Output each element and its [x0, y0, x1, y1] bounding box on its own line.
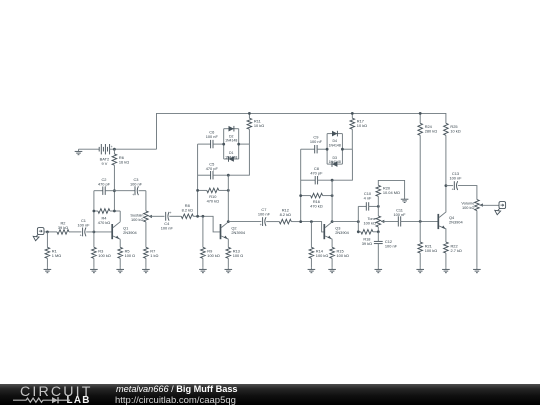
svg-text:9 V: 9 V	[101, 161, 107, 166]
svg-text:10.04 MΩ: 10.04 MΩ	[383, 190, 400, 195]
svg-text:8.2 kΩ: 8.2 kΩ	[182, 207, 193, 212]
svg-text:D1: D1	[229, 151, 234, 155]
svg-text:100 Ω: 100 Ω	[233, 253, 244, 258]
svg-text:2N3904: 2N3904	[449, 220, 463, 225]
svg-text:100 nF: 100 nF	[393, 212, 406, 217]
svg-text:100 nF: 100 nF	[385, 244, 398, 249]
svg-text:100 nF: 100 nF	[206, 134, 219, 139]
svg-text:1 MΩ: 1 MΩ	[52, 253, 61, 258]
svg-text:+: +	[132, 193, 134, 197]
svg-text:D4: D4	[332, 139, 337, 143]
svg-text:10 kΩ: 10 kΩ	[450, 129, 460, 134]
svg-text:39 kΩ: 39 kΩ	[362, 241, 372, 246]
svg-text:10 kΩ: 10 kΩ	[357, 123, 367, 128]
svg-text:8.2 kΩ: 8.2 kΩ	[280, 212, 291, 217]
svg-text:100 nF: 100 nF	[310, 139, 323, 144]
svg-text:100 kΩ: 100 kΩ	[462, 205, 475, 210]
svg-text:100 nF: 100 nF	[77, 222, 90, 227]
svg-text:100 kΩ: 100 kΩ	[131, 217, 144, 222]
svg-text:470 kΩ: 470 kΩ	[310, 203, 323, 208]
svg-text:10 kΩ: 10 kΩ	[254, 123, 264, 128]
svg-text:100 nF: 100 nF	[258, 211, 271, 216]
svg-text:2N3904: 2N3904	[335, 230, 349, 235]
svg-text:39 kΩ: 39 kΩ	[58, 225, 68, 230]
svg-text:470 kΩ: 470 kΩ	[207, 198, 220, 203]
svg-text:100 nF: 100 nF	[130, 182, 143, 187]
svg-text:4 nF: 4 nF	[364, 196, 372, 201]
svg-text:100 nF: 100 nF	[161, 225, 174, 230]
svg-text:2N3904: 2N3904	[231, 230, 245, 235]
svg-text:D3: D3	[332, 156, 337, 160]
svg-text:100 Ω: 100 Ω	[125, 253, 136, 258]
svg-text:1N4148: 1N4148	[329, 144, 341, 148]
svg-text:16 kΩ: 16 kΩ	[119, 159, 129, 164]
svg-text:1N4148: 1N4148	[225, 139, 237, 143]
svg-text:100 kΩ: 100 kΩ	[425, 248, 438, 253]
svg-text:470 pF: 470 pF	[310, 170, 323, 175]
svg-text:+: +	[260, 223, 262, 227]
svg-text:470 pF: 470 pF	[206, 166, 219, 171]
svg-text:1N4148: 1N4148	[329, 160, 341, 164]
svg-text:+: +	[169, 211, 171, 215]
svg-text:100 kΩ: 100 kΩ	[98, 253, 111, 258]
svg-text:+: +	[111, 145, 113, 149]
svg-text:470 kΩ: 470 kΩ	[98, 220, 111, 225]
svg-text:+: +	[452, 188, 454, 192]
svg-text:+: +	[80, 234, 82, 238]
svg-text:1N4148: 1N4148	[225, 155, 237, 159]
svg-text:470 pF: 470 pF	[98, 182, 111, 187]
svg-text:2.7 kΩ: 2.7 kΩ	[451, 248, 462, 253]
svg-text:100 kΩ: 100 kΩ	[316, 253, 329, 258]
svg-text:100 kΩ: 100 kΩ	[207, 253, 220, 258]
svg-text:2N3904: 2N3904	[123, 230, 137, 235]
svg-text:100 nF: 100 nF	[449, 175, 462, 180]
svg-text:100 kΩ: 100 kΩ	[337, 253, 350, 258]
svg-text:280 kΩ: 280 kΩ	[425, 129, 438, 134]
svg-text:100 kΩ: 100 kΩ	[363, 220, 376, 225]
svg-text:1 kΩ: 1 kΩ	[150, 253, 158, 258]
svg-text:D2: D2	[229, 134, 234, 138]
